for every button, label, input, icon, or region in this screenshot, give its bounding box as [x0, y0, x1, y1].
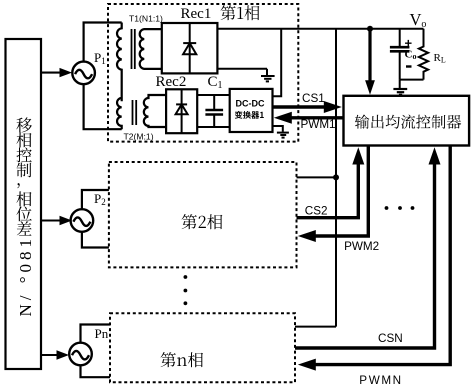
wire phase2 output tap: [297, 176, 337, 178]
diode D2 inside Rec2: [176, 89, 188, 133]
wire Pn loop to phase n: [81, 325, 111, 378]
node junction dot on bus: [367, 26, 373, 32]
controller label 输出均流控制器: [355, 115, 461, 129]
transformer T1 secondary winding: [140, 29, 162, 69]
rectifier Rec1 box: [162, 23, 218, 73]
svg-text:T2(M:1): T2(M:1): [124, 132, 154, 142]
ground at converter: [273, 126, 283, 132]
signal PWMN: [314, 146, 450, 365]
signal CS1: [273, 105, 327, 108]
transformer T2 secondary winding: [144, 95, 166, 127]
wire Rec1 bottom output: [217, 68, 267, 70]
wire bus branch down to phases: [335, 29, 337, 327]
wire Rec2 to converter bottom rail: [197, 126, 230, 128]
capacitor Co: [390, 29, 410, 80]
DC-DC converter U1 box: [230, 89, 273, 132]
phase-shift control block: [6, 39, 42, 369]
phase n dashed box: [110, 313, 295, 382]
svg-text:PWM2: PWM2: [344, 240, 379, 253]
output current-sharing controller box: [344, 96, 470, 146]
resistor RL: [419, 29, 428, 80]
control block vertical label 移相控制，相位差: [16, 117, 32, 235]
wire phase n output tap: [295, 326, 336, 328]
svg-text:T1(N1:1): T1(N1:1): [129, 13, 163, 23]
transformer T2 primary winding: [117, 98, 122, 129]
ground at output: [399, 80, 401, 89]
svg-text:CS1: CS1: [302, 92, 325, 105]
svg-text:Pn: Pn: [95, 326, 109, 341]
svg-text:PWMN: PWMN: [359, 374, 402, 387]
svg-text:PWM1: PWM1: [301, 118, 336, 131]
wire control to P2: [41, 219, 61, 221]
rectifier Rec2 box: [166, 89, 197, 133]
label 第1相: [221, 5, 260, 20]
label 第2相: [182, 214, 223, 229]
node phase2 output junction dot: [333, 174, 339, 180]
svg-text:CSN: CSN: [378, 332, 403, 345]
phase 1 dashed box: [108, 4, 298, 142]
AC source P2: [71, 209, 94, 232]
output bus wire to Vo: [217, 28, 423, 30]
wire P1 loop to phase1: [84, 23, 122, 130]
thick arrow bus into controller: [368, 29, 371, 82]
wire control to P1: [41, 72, 61, 74]
wire converter output riser to bus: [273, 29, 282, 96]
wire P2 loop to phase2: [82, 190, 109, 248]
AC source P1: [72, 62, 95, 85]
signal PWM2: [314, 146, 368, 237]
capacitor C1: [205, 95, 223, 127]
svg-text:CS2: CS2: [305, 205, 328, 218]
label minus: [406, 65, 412, 67]
transformer T2 core: [132, 100, 134, 125]
signal PWM1: [290, 116, 344, 119]
transformer T1 core: [131, 29, 133, 69]
diode D1 inside Rec1: [183, 23, 196, 73]
phase 2 dashed box: [109, 162, 297, 267]
AC source Pn: [69, 343, 92, 366]
ground at Rec1 output: [266, 69, 268, 76]
signal CS2: [297, 164, 359, 218]
transformer T1 primary winding: [117, 23, 122, 102]
svg-text:DC-DC: DC-DC: [236, 98, 265, 108]
wire output bottom rail: [400, 79, 424, 81]
vertical ellipsis between phase2 and phase n: [184, 275, 188, 305]
label 第n相: [161, 352, 204, 367]
svg-text:Rec1: Rec1: [181, 6, 212, 22]
horizontal ellipsis right of PWM2: [385, 206, 415, 210]
signal CSN: [295, 164, 435, 348]
wire control to Pn: [41, 354, 58, 356]
svg-text:Rec2: Rec2: [156, 74, 187, 90]
svg-text:N/ °081: N/ °081: [16, 235, 35, 317]
wire Rec2 to converter top rail: [197, 94, 230, 96]
